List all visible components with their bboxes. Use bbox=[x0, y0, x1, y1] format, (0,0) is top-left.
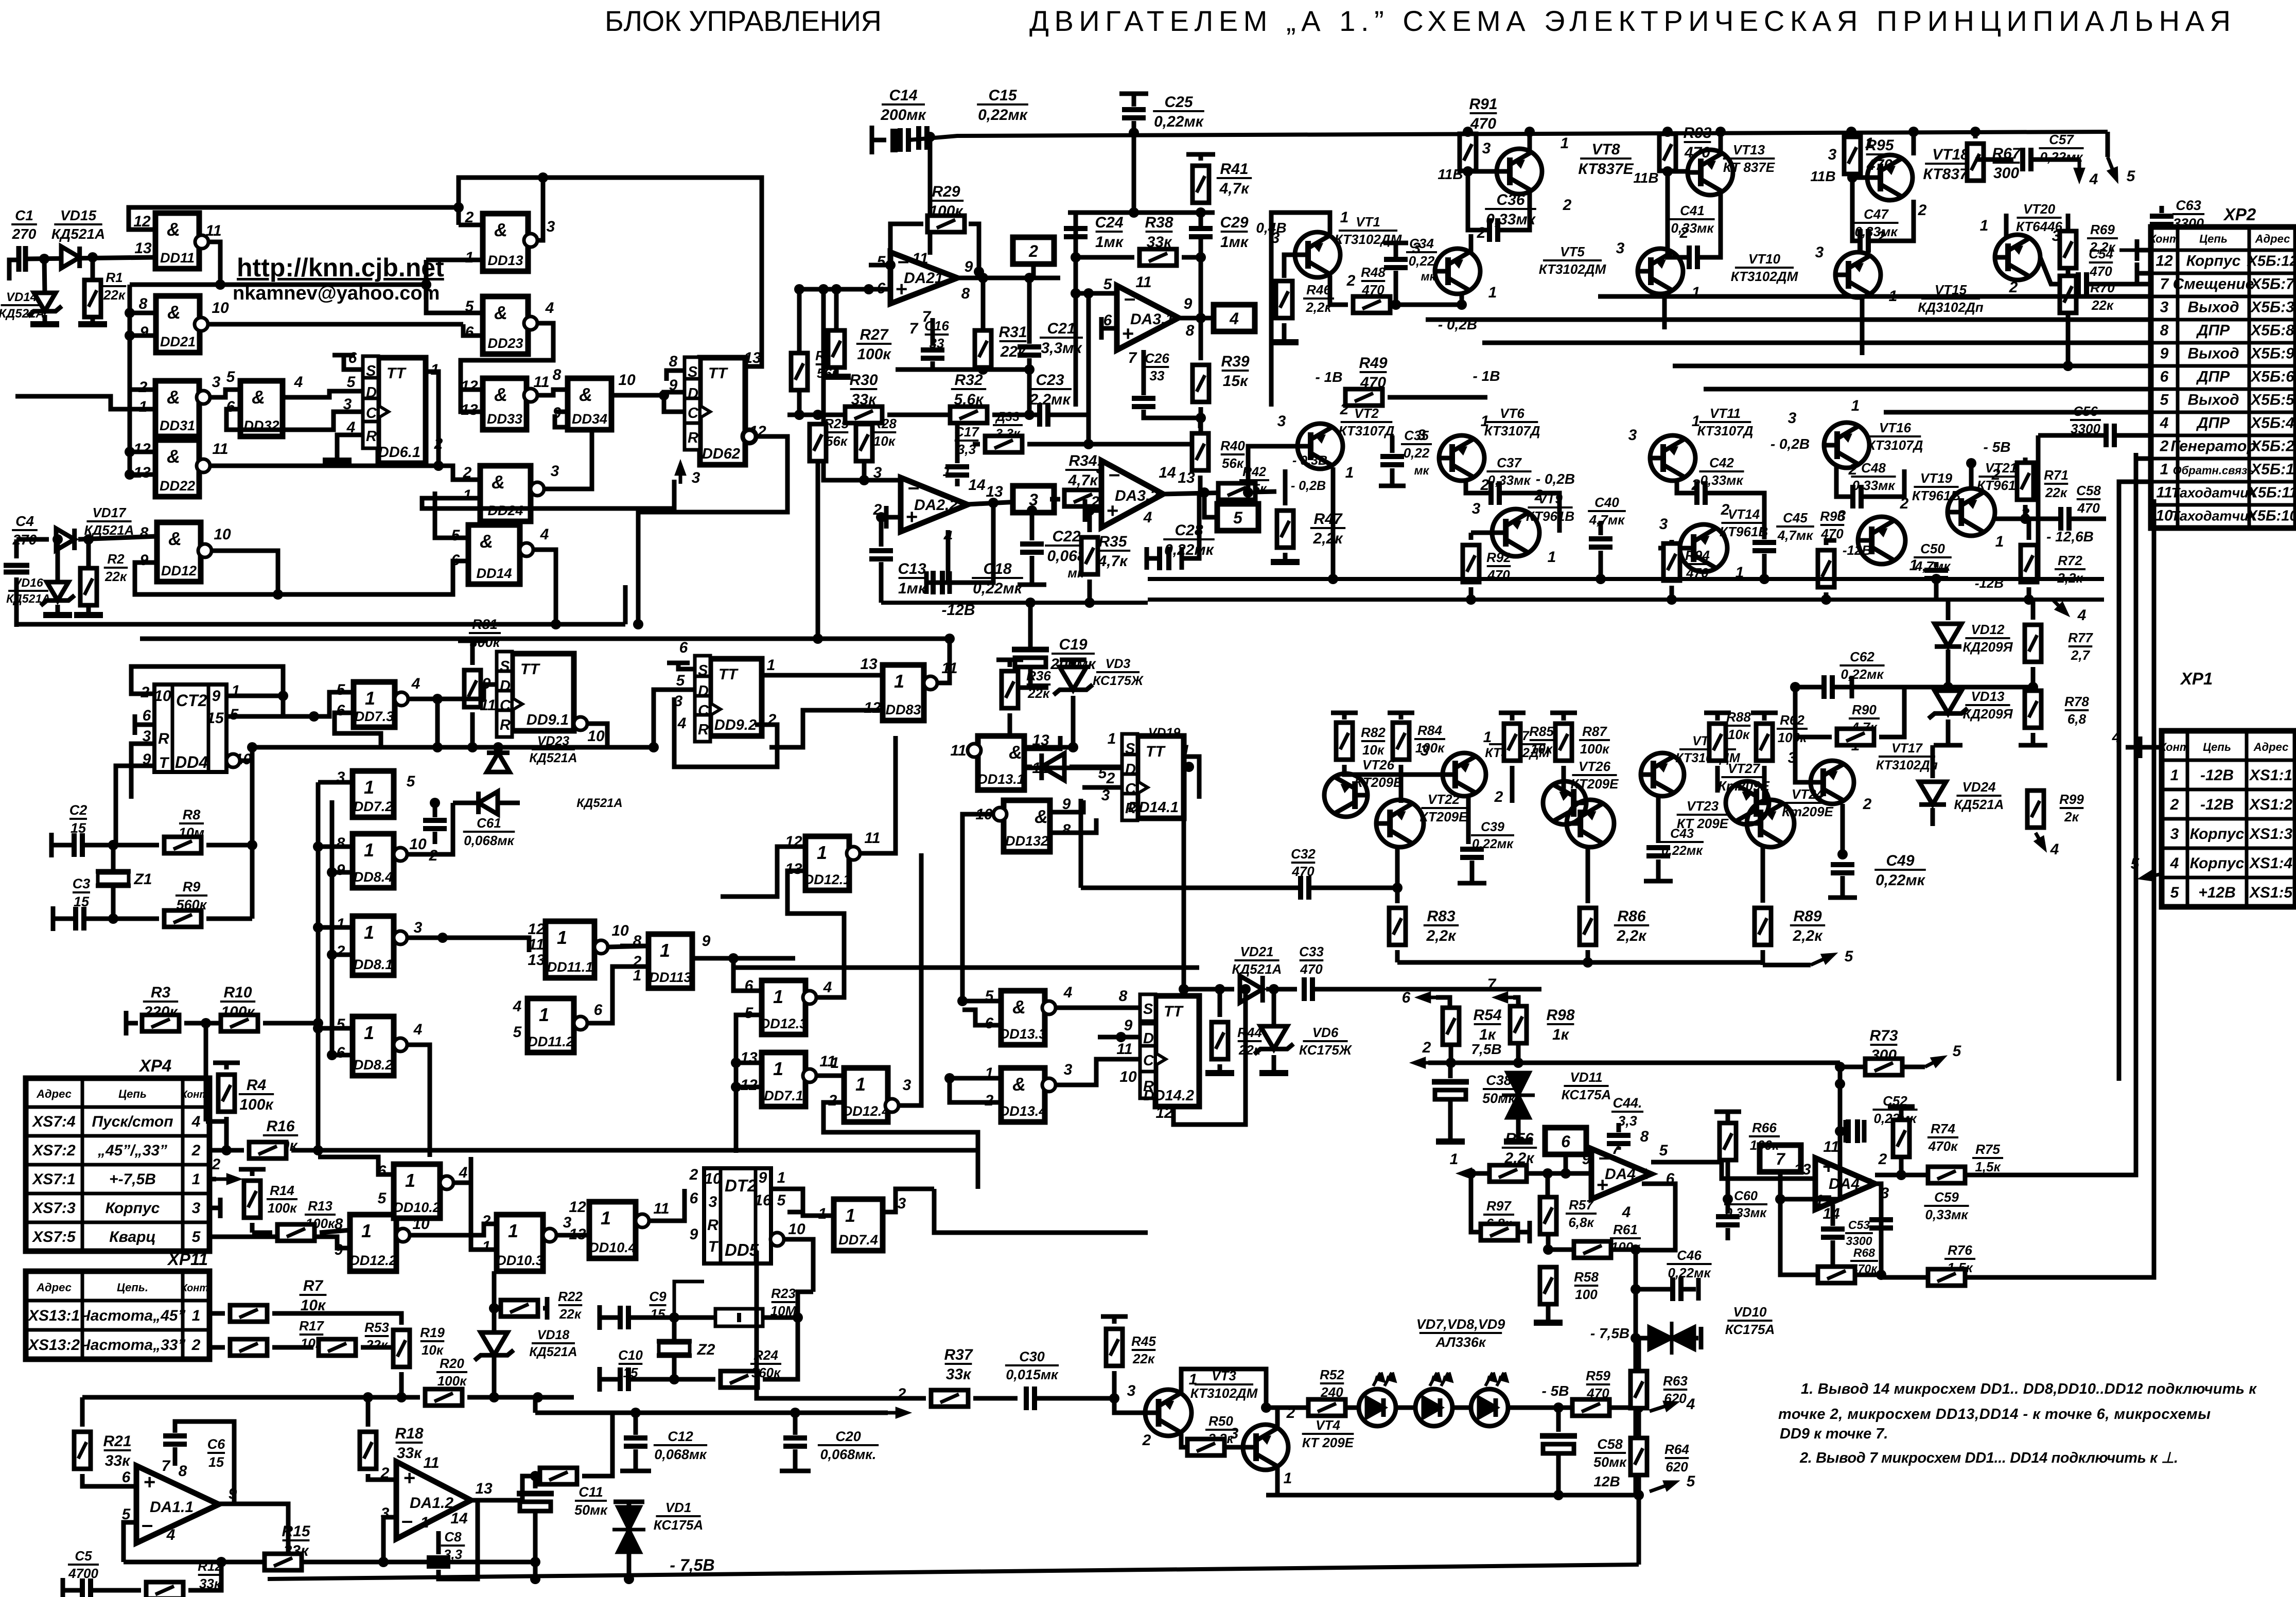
svg-text:0,33мк: 0,33мк bbox=[1487, 472, 1531, 488]
svg-text:DD11.2: DD11.2 bbox=[528, 1034, 574, 1049]
svg-text:R91: R91 bbox=[1469, 96, 1497, 113]
svg-text:10: 10 bbox=[618, 372, 636, 389]
svg-text:C4: C4 bbox=[15, 513, 34, 529]
svg-text:- 1В: - 1В bbox=[1473, 368, 1500, 384]
svg-text:0,068мк: 0,068мк bbox=[464, 833, 515, 848]
svg-text:DD11: DD11 bbox=[160, 250, 195, 266]
svg-text:2: 2 bbox=[1028, 242, 1038, 260]
svg-text:T: T bbox=[159, 754, 170, 771]
capacitor C47 label bbox=[1853, 206, 1898, 239]
wire VT13 collector to bus bbox=[1719, 132, 1723, 153]
diode VD15 label bbox=[51, 207, 105, 242]
svg-text:470: 470 bbox=[1300, 961, 1323, 977]
svg-text:R58: R58 bbox=[1574, 1269, 1599, 1285]
resistor R31 bbox=[981, 278, 986, 330]
svg-text:TT: TT bbox=[1164, 1003, 1184, 1020]
wire VT13 base bbox=[1668, 169, 1690, 174]
transistor VT19 bbox=[1858, 517, 1905, 564]
svg-text:12: 12 bbox=[1155, 1104, 1173, 1121]
svg-text:1мк: 1мк bbox=[1220, 234, 1249, 251]
svg-text:Х5Б:10: Х5Б:10 bbox=[2247, 508, 2296, 524]
resistor R56 label bbox=[1502, 1130, 1537, 1167]
gate DD10.2 bbox=[393, 1164, 453, 1218]
resistor R72 label bbox=[2055, 553, 2085, 586]
gate DD11.1 bbox=[546, 921, 608, 978]
svg-text:DA3.2: DA3.2 bbox=[1115, 487, 1159, 504]
gate DD8.3 bbox=[883, 665, 937, 721]
svg-text:0,22мк: 0,22мк bbox=[1154, 113, 1204, 130]
svg-text:мк: мк bbox=[1414, 464, 1430, 477]
wire VT10 emitter down bbox=[1662, 293, 1667, 329]
resistor R36 label bbox=[1026, 668, 1051, 701]
zener VD14 bbox=[44, 259, 45, 293]
svg-text:5: 5 bbox=[877, 253, 886, 270]
wire DA4.1 pin6 loop bbox=[1636, 1184, 1675, 1250]
svg-text:2: 2 bbox=[1900, 495, 1909, 512]
wire DA1.1 output bbox=[219, 1504, 288, 1562]
capacitor C33 bbox=[1304, 977, 1312, 1001]
svg-text:6: 6 bbox=[690, 1190, 698, 1207]
wire VD17 to DD1.2 pin8 bbox=[78, 536, 157, 539]
svg-text:TT: TT bbox=[718, 666, 739, 683]
resistor R96 bbox=[1826, 540, 1836, 545]
svg-text:10: 10 bbox=[587, 728, 605, 745]
resistor R99 label bbox=[2059, 792, 2084, 824]
wire lower loop DA2.1 bbox=[896, 367, 1029, 372]
transistor VT18 bbox=[1867, 155, 1913, 200]
capacitor C38 bbox=[1448, 1063, 1453, 1078]
svg-text:9: 9 bbox=[212, 688, 221, 705]
svg-text:R97: R97 bbox=[1486, 1198, 1512, 1214]
capacitor C61 label bbox=[463, 815, 515, 848]
capacitor C23 bbox=[1040, 403, 1048, 427]
wire VT4 collector bbox=[1275, 1408, 1280, 1428]
svg-text:DD11.1: DD11.1 bbox=[547, 959, 593, 975]
wire DD4 R pin bbox=[131, 744, 154, 799]
capacitor C3 bbox=[51, 906, 56, 931]
wire VT2 base bbox=[1248, 446, 1298, 493]
svg-text:Кт209Е: Кт209Е bbox=[1718, 778, 1769, 794]
svg-text:DD13.4: DD13.4 bbox=[1000, 1103, 1047, 1119]
capacitor C42 bbox=[1677, 480, 1697, 493]
svg-text:0,33мк: 0,33мк bbox=[1671, 220, 1714, 236]
svg-text:R19: R19 bbox=[420, 1325, 445, 1340]
svg-text:6,8: 6,8 bbox=[2067, 711, 2087, 727]
resistor R90 bbox=[1795, 687, 1832, 737]
svg-text:11В: 11В bbox=[1810, 168, 1835, 184]
svg-text:1: 1 bbox=[1488, 284, 1497, 301]
resistor R18 bbox=[366, 1397, 371, 1427]
svg-text:VD6: VD6 bbox=[1312, 1025, 1339, 1040]
resistor R19 label bbox=[420, 1325, 445, 1358]
svg-text:6: 6 bbox=[465, 324, 474, 341]
wire DD6.2 pin9 bbox=[664, 392, 685, 395]
svg-text:33к: 33к bbox=[105, 1452, 131, 1469]
svg-text:R16: R16 bbox=[266, 1118, 294, 1135]
zener VD6 label bbox=[1299, 1025, 1353, 1058]
resistor R10 label bbox=[220, 984, 256, 1021]
svg-text:C23: C23 bbox=[1036, 372, 1064, 389]
wire R64 to bottom rail bbox=[1637, 1495, 1641, 1565]
svg-text:КД209Я: КД209Я bbox=[1962, 706, 2013, 722]
svg-text:2: 2 bbox=[1918, 202, 1927, 219]
capacitor C10 label bbox=[618, 1347, 643, 1380]
svg-text:1: 1 bbox=[192, 1307, 201, 1324]
svg-text:DD9 к точке 7.: DD9 к точке 7. bbox=[1780, 1426, 1888, 1442]
capacitor C18 bbox=[926, 530, 948, 583]
wire DD12.4 pin2 bbox=[823, 1102, 978, 1189]
diode VD22 bbox=[453, 801, 520, 805]
svg-text:8: 8 bbox=[337, 835, 345, 852]
wire 7.5V row bbox=[1414, 1059, 1428, 1066]
svg-text:КД521А: КД521А bbox=[51, 226, 105, 242]
resistor R39 label bbox=[1221, 353, 1249, 390]
svg-text:ХР1: ХР1 bbox=[2180, 669, 2213, 688]
capacitor C28 bbox=[1145, 547, 1149, 570]
resistor R84 label bbox=[1414, 723, 1445, 756]
wire DD10.2 pin6 bbox=[318, 1157, 394, 1174]
svg-text:1: 1 bbox=[894, 671, 904, 692]
transistor VT8 label bbox=[1578, 141, 1634, 178]
svg-text:6: 6 bbox=[348, 349, 357, 366]
capacitor C37 label bbox=[1486, 455, 1531, 488]
wire second bottom rail bbox=[140, 637, 950, 641]
svg-text:C3: C3 bbox=[73, 876, 91, 891]
wire DD3.4 pin9 bbox=[555, 410, 568, 414]
wire DD7.4 pin1 bbox=[803, 1189, 834, 1216]
capacitor C58 label bbox=[1593, 1436, 1627, 1470]
svg-text:10: 10 bbox=[2155, 507, 2173, 524]
transistor VT27 label bbox=[1718, 761, 1769, 794]
svg-text:DD10.2: DD10.2 bbox=[393, 1200, 441, 1215]
svg-text:1: 1 bbox=[831, 1055, 839, 1072]
svg-text:14: 14 bbox=[968, 477, 986, 494]
svg-text:5: 5 bbox=[337, 681, 346, 698]
wire DD3.1 pin1 from left bbox=[15, 396, 155, 409]
svg-text:Частота„33”: Частота„33” bbox=[80, 1337, 186, 1354]
svg-text:R17: R17 bbox=[299, 1318, 324, 1333]
wire XP4 row3 stub bbox=[209, 1206, 219, 1210]
capacitor C4 label bbox=[12, 513, 38, 548]
wire to XP2 row2 generator bbox=[2038, 433, 2106, 438]
svg-text:1: 1 bbox=[539, 1004, 549, 1025]
resistor R31 label bbox=[998, 324, 1027, 360]
svg-text:&: & bbox=[167, 446, 180, 467]
svg-text:1: 1 bbox=[1345, 464, 1354, 481]
svg-text:2: 2 bbox=[689, 1166, 698, 1183]
svg-text:11В: 11В bbox=[1633, 170, 1658, 186]
svg-text:DD12.2: DD12.2 bbox=[349, 1253, 397, 1268]
svg-text:1: 1 bbox=[1284, 1470, 1292, 1487]
svg-text:2: 2 bbox=[336, 943, 345, 960]
svg-text:ХР4: ХР4 bbox=[138, 1056, 171, 1075]
wire DD1.1 pin12 loop bbox=[129, 207, 459, 230]
svg-text:1: 1 bbox=[777, 1169, 786, 1186]
svg-text:CT2: CT2 bbox=[176, 691, 207, 710]
diode VD17 label bbox=[84, 505, 134, 538]
svg-text:R: R bbox=[500, 717, 511, 733]
wire VT1 emitter to R48 bbox=[1330, 275, 1348, 305]
svg-text:VD16: VD16 bbox=[13, 576, 43, 589]
svg-text:100к: 100к bbox=[1580, 741, 1610, 757]
svg-text:C8: C8 bbox=[444, 1529, 462, 1545]
svg-text:14: 14 bbox=[450, 1510, 468, 1527]
resistor R3 bbox=[124, 1011, 129, 1036]
gate DD12.4 bbox=[843, 1068, 899, 1122]
LED VD9 bbox=[1471, 1373, 1508, 1426]
wire vertical x645 bus bbox=[330, 800, 335, 1058]
svg-text:DA1.1: DA1.1 bbox=[150, 1499, 194, 1516]
svg-text:12: 12 bbox=[528, 921, 545, 938]
wire DD12.1 pin12 loop bbox=[721, 847, 805, 897]
svg-text:КТ3102ДМ: КТ3102ДМ bbox=[1731, 269, 1799, 284]
svg-text:10: 10 bbox=[212, 300, 229, 317]
svg-text:1: 1 bbox=[2160, 461, 2169, 478]
svg-text:–: – bbox=[1109, 463, 1120, 485]
diode VD21 label bbox=[1232, 944, 1282, 977]
capacitor C17 bbox=[955, 415, 960, 463]
svg-text:–: – bbox=[898, 250, 909, 272]
svg-text:C41: C41 bbox=[1680, 203, 1705, 218]
svg-text:13: 13 bbox=[528, 952, 545, 969]
capacitor C59 label bbox=[1924, 1189, 1969, 1222]
svg-text:4: 4 bbox=[191, 1113, 201, 1130]
capacitor C59 bbox=[1869, 1220, 1893, 1228]
connector XP1 arrow 5 bbox=[2142, 872, 2162, 879]
resistor R95 bbox=[1844, 137, 1861, 174]
resistor R18 label bbox=[395, 1425, 423, 1462]
svg-text:- 7,5В: - 7,5В bbox=[1590, 1325, 1629, 1341]
svg-text:VD11: VD11 bbox=[1570, 1069, 1602, 1085]
wire XP11 row1 to R7 bbox=[209, 1311, 225, 1316]
wire to XP2 row4 bbox=[1884, 410, 2151, 415]
flip-flop DD9.2 bbox=[695, 656, 762, 742]
svg-text:C5: C5 bbox=[75, 1548, 92, 1564]
svg-text:2: 2 bbox=[1494, 788, 1503, 805]
resistor R9 label bbox=[176, 879, 207, 912]
svg-text:C33: C33 bbox=[1299, 944, 1324, 959]
svg-text:6: 6 bbox=[1402, 989, 1411, 1006]
svg-text:C16: C16 bbox=[924, 318, 949, 334]
resistor R1 bbox=[91, 257, 95, 280]
resistor R10 bbox=[221, 1015, 258, 1031]
svg-text:9: 9 bbox=[690, 1226, 698, 1243]
lower rail through op-amp block bbox=[881, 601, 1148, 605]
svg-text:R8: R8 bbox=[183, 807, 201, 822]
svg-text:- 0,2В: - 0,2В bbox=[1291, 479, 1326, 493]
svg-text:300: 300 bbox=[1993, 165, 2019, 182]
svg-text:12: 12 bbox=[569, 1199, 586, 1216]
svg-text:R2: R2 bbox=[107, 551, 125, 567]
wire DD4 T pin bbox=[116, 766, 154, 845]
capacitor C50 bbox=[1934, 562, 1939, 567]
op-amp DA3.2 bbox=[1101, 461, 1163, 528]
wire DD14.1 D stub bbox=[1094, 785, 1122, 790]
resistor R52 bbox=[1308, 1399, 1345, 1416]
zener VD10 bidirectional bbox=[1636, 1336, 1650, 1341]
svg-text:560к: 560к bbox=[177, 897, 207, 912]
svg-text:5: 5 bbox=[513, 1024, 522, 1041]
svg-text:1: 1 bbox=[601, 1207, 611, 1229]
svg-text:0,22мк: 0,22мк bbox=[1841, 666, 1884, 682]
svg-text:DD13.3: DD13.3 bbox=[1000, 1026, 1047, 1042]
svg-text:3: 3 bbox=[1659, 516, 1668, 533]
wire C52 node down bbox=[1780, 1131, 1840, 1199]
svg-text:2: 2 bbox=[1346, 272, 1356, 289]
wire DD12.3 pin5 bbox=[736, 1015, 762, 1060]
svg-text:S: S bbox=[1143, 1001, 1153, 1017]
svg-text:VT4: VT4 bbox=[1316, 1417, 1340, 1433]
svg-text:Х5Б:11: Х5Б:11 bbox=[2247, 485, 2296, 501]
svg-text:Х5Б:9: Х5Б:9 bbox=[2250, 345, 2294, 362]
transistor VT2 label bbox=[1339, 406, 1395, 438]
svg-text:- 1В: - 1В bbox=[1316, 369, 1343, 385]
svg-text:100к: 100к bbox=[1750, 1137, 1780, 1153]
counter DT2 / DD5 bbox=[704, 1168, 771, 1263]
svg-text:3: 3 bbox=[1230, 1425, 1239, 1442]
svg-text:R30: R30 bbox=[849, 372, 878, 389]
wire DD13.4 pins bbox=[950, 1076, 1001, 1081]
wire DD6.1 S stub bbox=[344, 356, 363, 370]
transistor VT1 label bbox=[1335, 214, 1403, 247]
svg-text:100: 100 bbox=[1575, 1287, 1598, 1302]
wire to point2 rail start bbox=[533, 1397, 538, 1413]
resistor R17 bbox=[230, 1339, 267, 1356]
svg-text:-12В: -12В bbox=[2200, 767, 2234, 784]
op-amp DA4.1 bbox=[1591, 1146, 1651, 1199]
svg-text:3: 3 bbox=[1472, 500, 1481, 517]
diode VD15 bbox=[61, 247, 80, 268]
svg-text:1: 1 bbox=[1481, 413, 1489, 430]
svg-text:VD3: VD3 bbox=[1106, 657, 1131, 671]
svg-text:Таходатчик: Таходатчик bbox=[2171, 508, 2256, 524]
wire DD13.2 pins right bbox=[1050, 800, 1083, 812]
svg-text:КТ837Е: КТ837Е bbox=[1578, 161, 1634, 178]
svg-text:R39: R39 bbox=[1221, 353, 1249, 370]
svg-text:8: 8 bbox=[1119, 988, 1128, 1005]
wire DD12.2 output bbox=[410, 1224, 497, 1235]
wire DD1.3 pin2 feedback bbox=[459, 223, 483, 227]
svg-text:R47: R47 bbox=[1313, 511, 1342, 528]
svg-text:R31: R31 bbox=[998, 324, 1027, 341]
wire DD9.2 D input bbox=[607, 690, 695, 747]
wire VT2 emitter bbox=[1331, 467, 1336, 579]
resistor R47 bbox=[1283, 469, 1288, 505]
resistor R53 bbox=[319, 1339, 356, 1356]
svg-text:R93: R93 bbox=[1683, 125, 1711, 142]
svg-text:R94: R94 bbox=[1685, 548, 1710, 563]
resistor R32 label bbox=[951, 372, 986, 408]
svg-text:R54: R54 bbox=[1473, 1007, 1501, 1024]
svg-text:C10: C10 bbox=[618, 1347, 643, 1363]
resistor R49 bbox=[1345, 389, 1382, 406]
resistor R73 bbox=[1840, 1065, 1865, 1069]
svg-text:8: 8 bbox=[335, 1216, 343, 1233]
svg-text:13: 13 bbox=[1032, 732, 1049, 749]
gate DD3.2 bbox=[240, 381, 283, 436]
wire VT20 collector bbox=[2004, 214, 2009, 237]
resistor R85 label bbox=[1529, 724, 1554, 757]
wire DD10.3 pin1 column bbox=[471, 1157, 497, 1250]
svg-text:DD7.3: DD7.3 bbox=[355, 709, 394, 724]
flip-flop DD14.2 bbox=[1140, 994, 1199, 1107]
svg-text:Генератор: Генератор bbox=[2170, 438, 2256, 455]
svg-text:- 5В: - 5В bbox=[1542, 1383, 1569, 1399]
svg-text:1: 1 bbox=[660, 940, 670, 961]
svg-text:КТ3107Д: КТ3107Д bbox=[1339, 423, 1395, 438]
svg-text:1: 1 bbox=[845, 1205, 855, 1226]
svg-text:4: 4 bbox=[677, 715, 687, 732]
svg-text:DD23: DD23 bbox=[487, 336, 523, 351]
svg-text:R15: R15 bbox=[282, 1523, 310, 1540]
svg-text:- 12,6В: - 12,6В bbox=[2046, 529, 2094, 545]
wire DA3.2 output bbox=[1163, 492, 1276, 494]
resistor R24 label bbox=[750, 1347, 781, 1380]
resistor R69 bbox=[2060, 231, 2076, 268]
svg-text:VT27: VT27 bbox=[1728, 761, 1761, 776]
svg-text:C60: C60 bbox=[1734, 1189, 1758, 1203]
svg-text:Х5Б:4: Х5Б:4 bbox=[2250, 415, 2294, 432]
wire VT18 base bbox=[1852, 176, 1868, 180]
capacitor C53 bbox=[1831, 1204, 1835, 1226]
capacitor C10 bbox=[598, 1367, 602, 1392]
svg-text:C: C bbox=[688, 405, 699, 422]
transistor VT27 bbox=[1726, 781, 1769, 824]
resistor R61 label bbox=[1610, 1222, 1641, 1255]
resistor R99 bbox=[2027, 791, 2044, 828]
resistor R19 bbox=[393, 1330, 410, 1367]
gate DD3.4 bbox=[568, 378, 611, 430]
svg-text:4,7к: 4,7к bbox=[1219, 180, 1250, 197]
wire DD1.4 output loop bbox=[533, 550, 556, 624]
svg-text:3: 3 bbox=[2160, 299, 2169, 316]
svg-text:11В: 11В bbox=[1438, 166, 1463, 182]
svg-text:R68: R68 bbox=[1853, 1246, 1875, 1259]
svg-text:R83: R83 bbox=[1427, 908, 1455, 925]
resistor R22 label bbox=[558, 1289, 583, 1322]
ground bbox=[822, 374, 851, 380]
svg-text:–: – bbox=[401, 1510, 413, 1532]
svg-text:6: 6 bbox=[122, 1469, 131, 1486]
svg-text:Х5Б:8: Х5Б:8 bbox=[2250, 322, 2294, 339]
svg-text:2: 2 bbox=[482, 1213, 491, 1230]
svg-text:R14: R14 bbox=[270, 1183, 294, 1198]
resistor R44 bbox=[1218, 989, 1222, 1017]
wire DD3.1 output to DD3.2 bbox=[210, 390, 240, 397]
resistor R54 label bbox=[1473, 1007, 1501, 1043]
svg-text:0,22: 0,22 bbox=[1404, 445, 1430, 461]
node box 7 over DA4.2 bbox=[1760, 1145, 1801, 1172]
LED VD7-VD9 label bbox=[1416, 1317, 1505, 1350]
svg-text:R56: R56 bbox=[1505, 1130, 1533, 1147]
svg-text:КС175Ж: КС175Ж bbox=[1093, 674, 1144, 688]
svg-text:–: – bbox=[142, 1514, 153, 1536]
transistor VT11 bbox=[1650, 435, 1695, 481]
node box 5 bbox=[1204, 493, 1217, 517]
svg-text:ХS7:2: ХS7:2 bbox=[31, 1142, 76, 1159]
wire DD9.2 out2 loop bbox=[674, 697, 777, 767]
svg-text:5: 5 bbox=[1233, 508, 1243, 527]
svg-text:TT: TT bbox=[520, 661, 540, 678]
svg-text:22к: 22к bbox=[1027, 686, 1050, 701]
svg-text:15к: 15к bbox=[1223, 373, 1249, 390]
wire y1452 long bbox=[255, 745, 607, 750]
svg-text:13: 13 bbox=[1794, 1161, 1811, 1178]
svg-text:3: 3 bbox=[1127, 1382, 1136, 1399]
resistor R69 label bbox=[2087, 222, 2118, 255]
transistor VT15 label bbox=[1918, 282, 1983, 315]
svg-text:9: 9 bbox=[965, 258, 973, 275]
